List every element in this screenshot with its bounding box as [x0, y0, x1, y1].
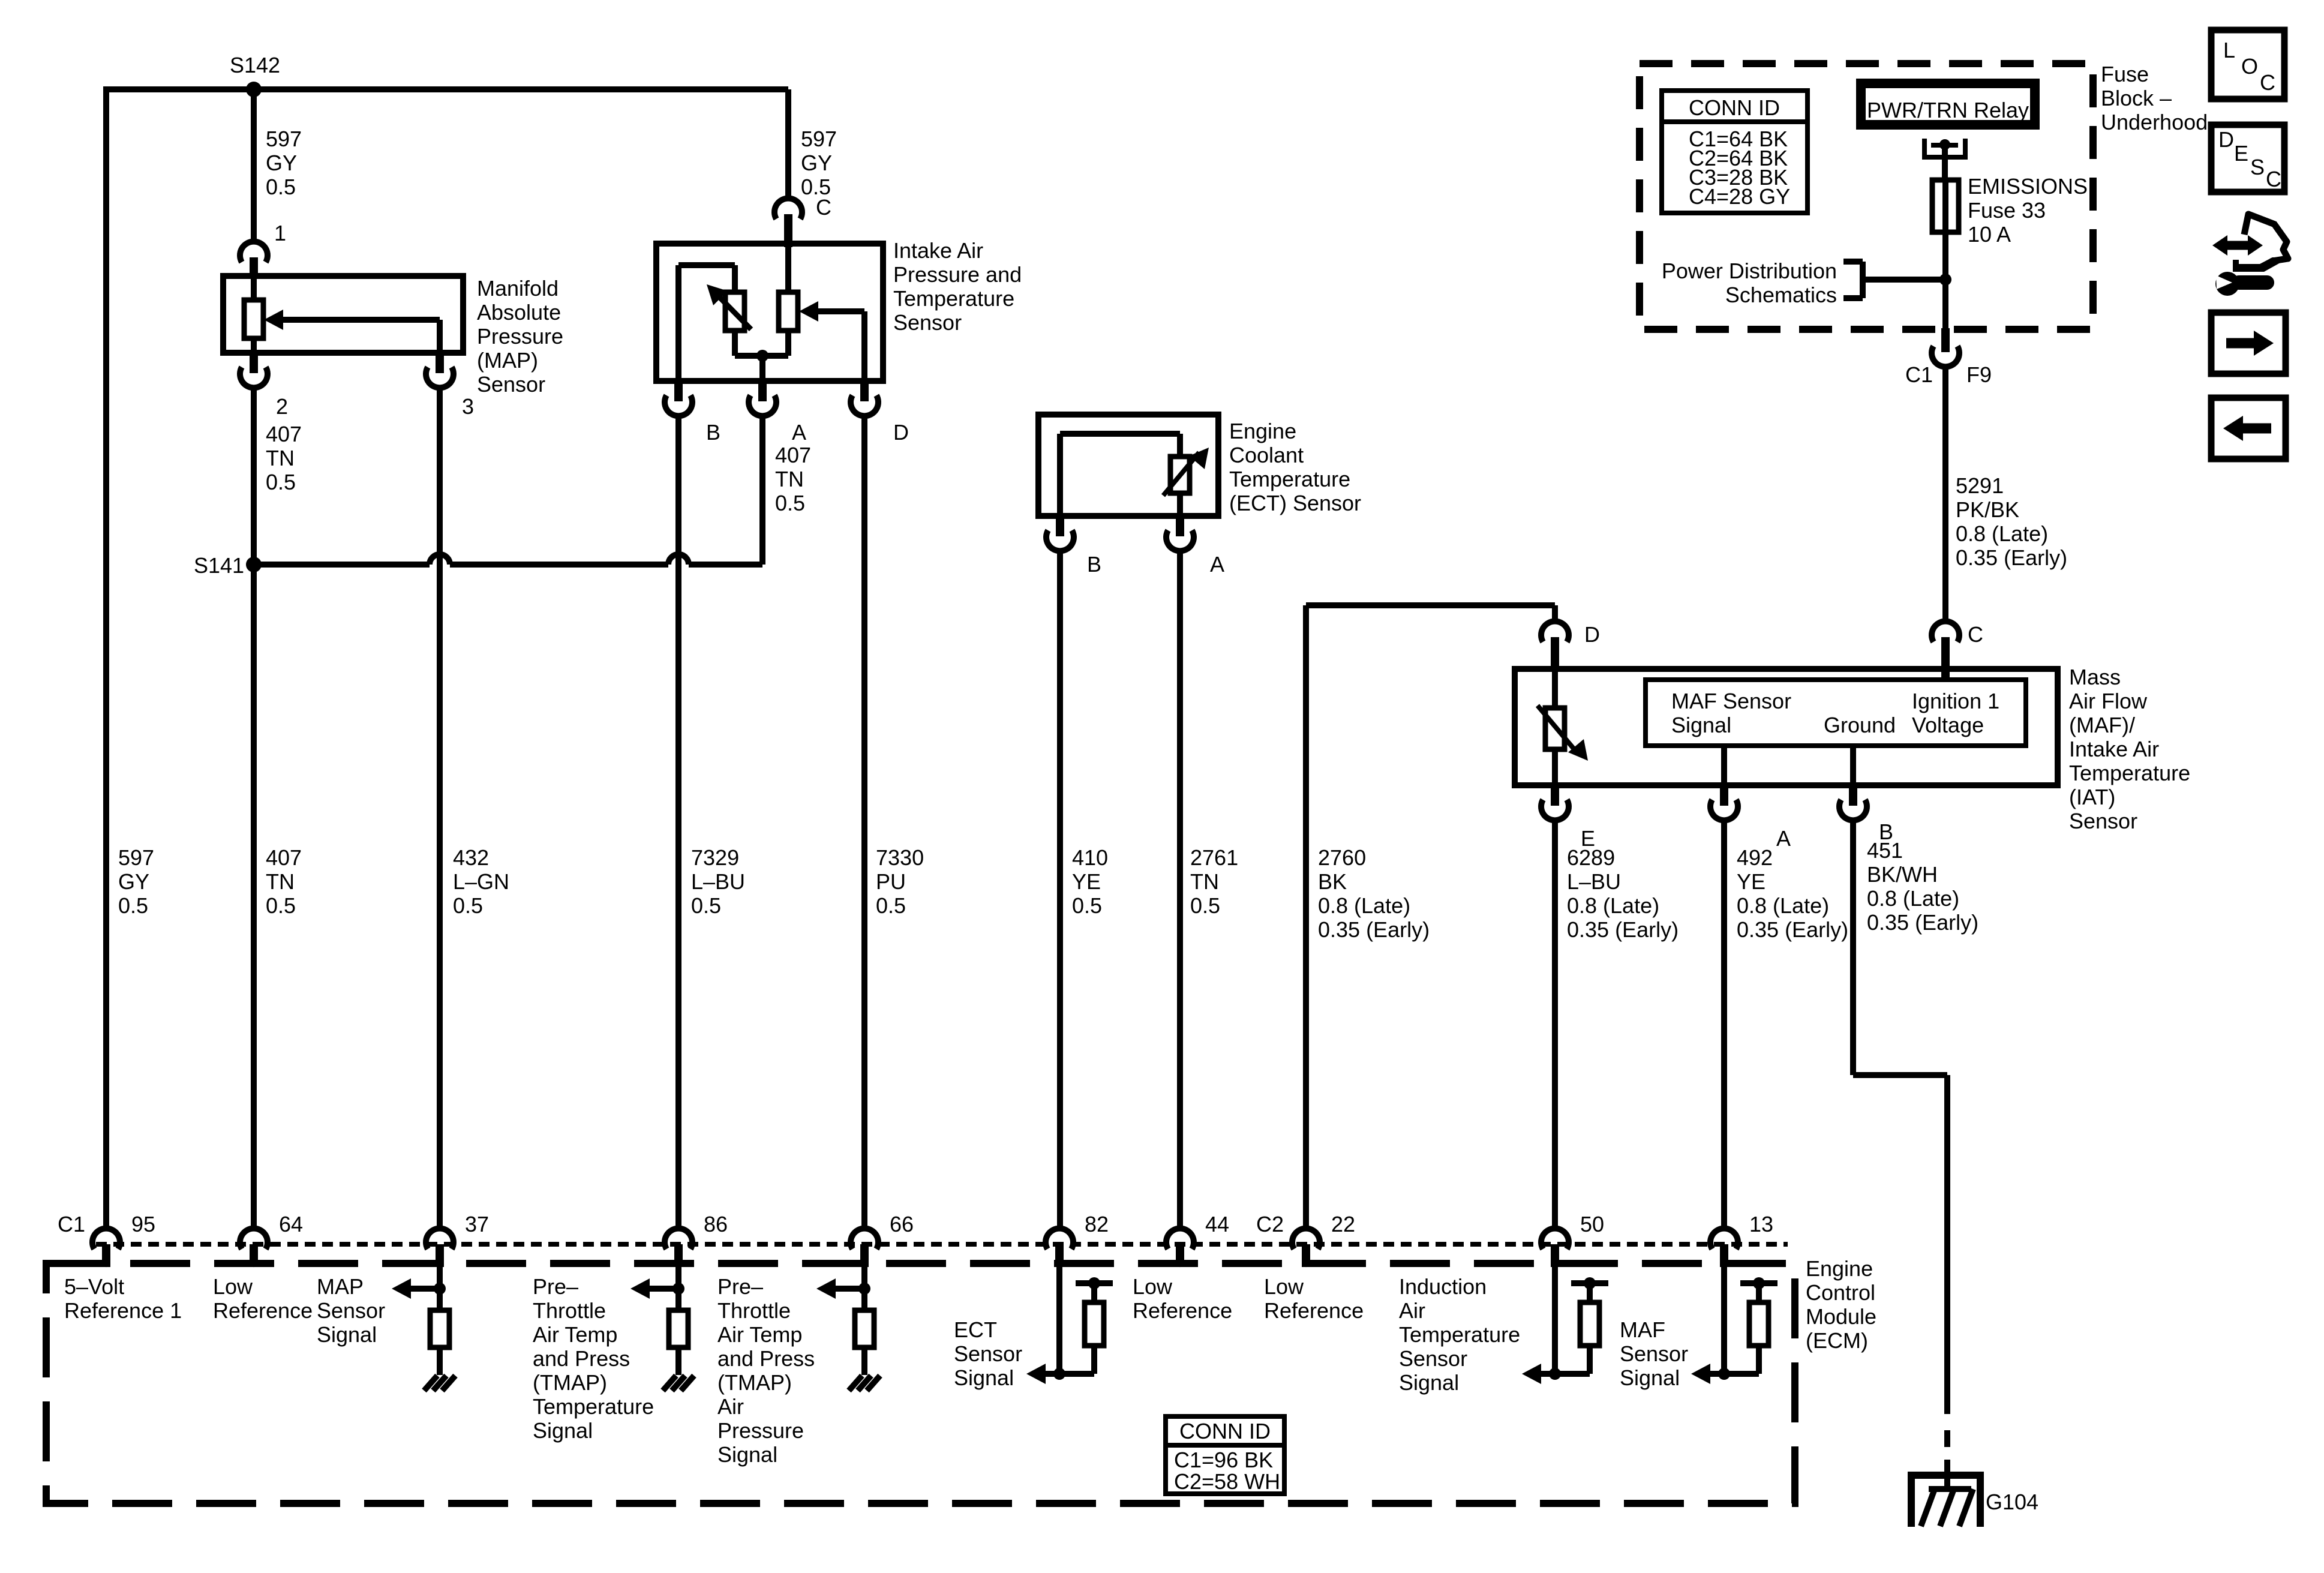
svg-text:D: D [2218, 127, 2234, 152]
svg-text:C2: C2 [1256, 1212, 1284, 1236]
svg-text:0.8 (Late): 0.8 (Late) [1867, 886, 1959, 911]
svg-text:C: C [1968, 622, 1983, 647]
connector pin D of MAF [1541, 622, 1569, 672]
svg-text:Signal: Signal [317, 1322, 377, 1347]
svg-text:G104: G104 [1986, 1490, 2038, 1514]
svg-text:Voltage: Voltage [1912, 713, 1984, 737]
svg-text:Signal: Signal [1671, 713, 1731, 737]
wire left vertical 597 GY 0.5 from top rail down to ECM pin 95 [103, 86, 109, 1230]
svg-text:Air Temp: Air Temp [533, 1322, 617, 1347]
label pin D (TMAP) [893, 420, 909, 445]
svg-text:MAP: MAP [317, 1274, 364, 1299]
svg-text:BK: BK [1318, 869, 1347, 894]
svg-text:B: B [706, 420, 720, 445]
connector pin A of TMAP [749, 380, 776, 416]
label pin A (MAF) [1776, 826, 1791, 851]
label C1 (ECM connector) [58, 1212, 85, 1236]
svg-text:Temperature: Temperature [1399, 1322, 1520, 1347]
svg-text:0.35 (Early): 0.35 (Early) [1867, 910, 1978, 935]
svg-text:GY: GY [266, 151, 297, 175]
svg-text:407: 407 [266, 422, 302, 446]
svg-text:7330: 7330 [876, 845, 924, 870]
icon box right arrow [2211, 313, 2286, 374]
svg-text:0.35 (Early): 0.35 (Early) [1956, 545, 2067, 570]
node S142 junction dot [246, 82, 262, 97]
ECT internal wire thermistor bottom to pin A [1177, 493, 1183, 516]
svg-text:C1: C1 [1905, 362, 1933, 387]
label C2 (ECM connector) [1256, 1212, 1284, 1236]
ECM dashed box [46, 1263, 1795, 1503]
power distribution schematics bracket [1843, 262, 1945, 298]
wire relay contact to fuse [1942, 145, 1948, 181]
svg-text:Underhood: Underhood [2101, 110, 2208, 134]
label pin B (MAF) [1879, 819, 1893, 844]
CONN ID table (ECM) [1166, 1416, 1284, 1494]
connector pin D of TMAP [851, 380, 878, 416]
svg-text:0.8 (Late): 0.8 (Late) [1737, 893, 1829, 918]
svg-text:95: 95 [131, 1212, 155, 1236]
svg-text:Air Temp: Air Temp [717, 1322, 802, 1347]
svg-text:Pre–: Pre– [717, 1274, 763, 1299]
svg-text:0.5: 0.5 [876, 893, 906, 918]
wire 451 BK/WH from MAF pin B to G104 ground [1853, 818, 1947, 1490]
svg-text:Reference 1: Reference 1 [64, 1298, 182, 1323]
wire 410 YE 0.5 from ECT pin B down to ECM pin 82 [1057, 548, 1063, 1230]
wire 492 YE from MAF pin A down to ECM pin 13 [1721, 818, 1727, 1230]
label Intake Air Pressure and Temperature Sensor [893, 238, 1022, 335]
svg-text:C: C [2260, 70, 2275, 95]
label pin 13 [1749, 1212, 1773, 1236]
svg-text:Sensor: Sensor [1620, 1341, 1688, 1366]
connector pin 1 of MAP sensor [240, 242, 268, 279]
svg-text:Block –: Block – [2101, 86, 2172, 110]
node fuse output junction dot [1939, 274, 1951, 286]
ECM internal wire stub at pin 95 [106, 1267, 107, 1268]
TMAP internal wire pin B up and over to thermistor [678, 265, 735, 381]
svg-text:407: 407 [775, 443, 811, 467]
label 597 GY 0.5 (wire to pin 95) [118, 845, 154, 918]
svg-text:(ECT) Sensor: (ECT) Sensor [1229, 491, 1361, 515]
connector ECM pin 37 [426, 1229, 454, 1267]
svg-text:Low: Low [213, 1274, 253, 1299]
TMAP internal wire pin C down to pressure resistor [785, 244, 791, 292]
label pin E (MAF) [1581, 826, 1595, 851]
svg-text:Ground: Ground [1824, 713, 1896, 737]
label Pre-Throttle Air Temp and Press (TMAP) Air Pressure Signal [717, 1274, 815, 1467]
wire 6289 L-BU from MAF pin E down to ECM pin 50 [1552, 818, 1558, 1230]
svg-text:(ECM): (ECM) [1806, 1328, 1868, 1353]
svg-text:S: S [2250, 155, 2265, 179]
svg-text:7329: 7329 [691, 845, 739, 870]
label pin A (TMAP) [792, 420, 806, 445]
svg-text:A: A [1776, 826, 1791, 851]
ECM internal wire stub at pin 64 [253, 1267, 254, 1268]
svg-text:Engine: Engine [1806, 1256, 1873, 1281]
svg-text:S141: S141 [194, 553, 244, 578]
svg-text:10 A: 10 A [1968, 222, 2011, 247]
thermistor inside TMAP sensor [707, 284, 751, 331]
svg-text:492: 492 [1737, 845, 1773, 870]
svg-text:(MAF)/: (MAF)/ [2069, 713, 2135, 737]
label pin D (MAF) [1584, 622, 1600, 647]
wire TMAP C drop 597 GY 0.5 [785, 89, 791, 201]
svg-text:0.35 (Early): 0.35 (Early) [1567, 917, 1679, 942]
ECM internal circuit at pin 82: signal arrow and pull-up resistor [1026, 1267, 1113, 1384]
connector ECM pin 50 [1541, 1229, 1569, 1267]
ECM internal wire stub at pin 22 [1305, 1267, 1307, 1268]
svg-text:0.5: 0.5 [266, 175, 296, 199]
svg-text:C: C [2266, 167, 2281, 191]
svg-text:0.5: 0.5 [453, 893, 483, 918]
relay contact bracket [1922, 139, 1968, 160]
svg-text:(MAP): (MAP) [477, 348, 538, 373]
label pin B (TMAP) [706, 420, 720, 445]
svg-text:C1: C1 [58, 1212, 85, 1236]
svg-text:Signal: Signal [954, 1365, 1014, 1390]
svg-text:Sensor: Sensor [954, 1341, 1022, 1366]
svg-text:Reference: Reference [213, 1298, 313, 1323]
svg-text:0.35 (Early): 0.35 (Early) [1737, 917, 1848, 942]
svg-text:Low: Low [1264, 1274, 1304, 1299]
svg-text:YE: YE [1072, 869, 1101, 894]
label 407 TN 0.5 (wire to pin 64) [266, 845, 302, 918]
icon box LOC [2211, 30, 2284, 99]
ECT internal wire pin B loop to thermistor [1060, 434, 1180, 516]
fuse EMISSIONS Fuse 33 10A [1932, 180, 1959, 232]
connector ECM pin 64 [240, 1229, 268, 1267]
label Low Reference (pin 64) [213, 1274, 313, 1323]
svg-text:0.35 (Early): 0.35 (Early) [1318, 917, 1430, 942]
svg-text:and Press: and Press [533, 1346, 630, 1371]
label Fuse Block - Underhood [2101, 62, 2208, 134]
svg-text:TN: TN [775, 467, 804, 491]
svg-text:TN: TN [1190, 869, 1219, 894]
svg-text:L–GN: L–GN [453, 869, 509, 894]
svg-text:E: E [2234, 141, 2248, 166]
ground (ECM internal at pin 37) [424, 1376, 455, 1391]
label Ignition 1 Voltage (inner box) [1912, 689, 1999, 737]
wire 7329 L-BU 0.5 from TMAP pin B down to ECM pin 86 [675, 413, 681, 1230]
svg-text:Temperature: Temperature [1229, 467, 1350, 491]
connector ECM pin 66 [851, 1229, 878, 1267]
label C1 (fuse block connector) [1905, 362, 1933, 387]
connector pin A of MAF [1710, 784, 1738, 820]
label Low Reference (pin 44) [1133, 1274, 1232, 1323]
label pin 82 [1085, 1212, 1109, 1236]
pressure resistor inside TMAP sensor [779, 292, 798, 331]
ECM internal circuit at pin 50: signal arrow and pull-up resistor [1522, 1267, 1608, 1384]
wire S141 low-reference rail with hops over 432 and 7329 wires [254, 554, 762, 565]
label pin C (MAF) [1968, 622, 1983, 647]
connector ECM pin 82 [1046, 1229, 1073, 1267]
wire 7330 PU 0.5 from TMAP pin D down to ECM pin 66 [861, 413, 867, 1230]
TMAP internal wire thermistor bottom to node [735, 331, 788, 356]
svg-text:A: A [1210, 552, 1224, 577]
svg-text:13: 13 [1749, 1212, 1773, 1236]
label pin B (ECT) [1087, 552, 1101, 577]
MAF internal wire ground to pin B [1850, 746, 1856, 785]
svg-text:Signal: Signal [717, 1442, 777, 1467]
svg-text:2760: 2760 [1318, 845, 1366, 870]
svg-text:(TMAP): (TMAP) [533, 1370, 607, 1395]
label pin 64 [279, 1212, 303, 1236]
svg-text:Pressure and: Pressure and [893, 262, 1022, 287]
svg-text:410: 410 [1072, 845, 1108, 870]
svg-text:L: L [2223, 38, 2235, 62]
svg-text:Air: Air [717, 1394, 744, 1419]
connector ECM pin 22 [1292, 1229, 1320, 1267]
label MAF Sensor Signal (inner box) [1671, 689, 1791, 737]
MAF internal wire thermistor to pin E [1552, 749, 1558, 785]
svg-text:1: 1 [274, 221, 286, 245]
svg-text:2: 2 [276, 394, 288, 419]
label 5291 PK/BK 0.8 (Late) 0.35 (Early) [1956, 473, 2067, 570]
label Mass Air Flow (MAF)/ Intake Air Temperature (IAT) Sensor [2069, 665, 2190, 833]
TMAP wiper arrow into pressure resistor [799, 301, 864, 322]
TMAP internal wire node down to pin A [759, 356, 765, 381]
wire 432 L-GN 0.5 from MAP pin 3 down to ECM pin 37 [437, 385, 443, 1230]
svg-text:Module: Module [1806, 1304, 1876, 1329]
ECM internal wire stub at pin 44 [1179, 1267, 1181, 1268]
label pin 22 [1331, 1212, 1355, 1236]
TMAP internal wire pressure resistor bottom to node [785, 331, 791, 356]
svg-text:Fuse: Fuse [2101, 62, 2149, 86]
svg-text:64: 64 [279, 1212, 303, 1236]
MAF inner terminal box [1646, 680, 2026, 746]
svg-text:Sensor: Sensor [317, 1298, 385, 1323]
svg-text:451: 451 [1867, 838, 1903, 863]
svg-text:0.5: 0.5 [118, 893, 148, 918]
wire S142 branch down to MAP sensor pin 1 [251, 89, 257, 244]
connector ECM pin 44 [1166, 1229, 1194, 1267]
svg-text:407: 407 [266, 845, 302, 870]
svg-text:CONN ID: CONN ID [1179, 1419, 1271, 1443]
svg-text:0.5: 0.5 [266, 470, 296, 494]
svg-text:TN: TN [266, 446, 295, 470]
svg-text:Reference: Reference [1264, 1298, 1364, 1323]
connector ECM pin 86 [665, 1229, 692, 1267]
connector pin 3 of MAP sensor [426, 352, 454, 388]
label MAF Sensor Signal (ECM) [1620, 1317, 1688, 1390]
label 432 L-GN 0.5 (wire to pin 37) [453, 845, 509, 918]
label 492 YE 0.8/0.35 (wire to pin 13) [1737, 845, 1848, 942]
svg-text:597: 597 [266, 127, 302, 151]
MAP internal wire pin1 to resistor top [251, 276, 257, 300]
svg-text:44: 44 [1205, 1212, 1229, 1236]
wire from S141 rail up to TMAP pin A connector [759, 413, 765, 565]
wire 2761 TN 0.5 from ECT pin A down to ECM pin 44 [1177, 548, 1183, 1230]
svg-text:Signal: Signal [1399, 1370, 1459, 1395]
MAF internal wire pin D to IAT thermistor [1552, 669, 1558, 708]
svg-text:50: 50 [1580, 1212, 1604, 1236]
label pin A (ECT) [1210, 552, 1224, 577]
svg-text:C2=58 WH: C2=58 WH [1174, 1469, 1280, 1494]
wire 2760 BK from ECM pin 22 up and over to MAF pin D [1306, 605, 1555, 1230]
label 407 TN 0.5 (MAP pin 2) [266, 422, 302, 494]
label pin 3 [462, 394, 474, 419]
svg-text:0.8 (Late): 0.8 (Late) [1318, 893, 1410, 918]
connector pin 2 of MAP sensor [240, 352, 268, 388]
svg-text:Ignition 1: Ignition 1 [1912, 689, 1999, 713]
svg-text:37: 37 [465, 1212, 489, 1236]
svg-text:Induction: Induction [1399, 1274, 1487, 1299]
CONN ID table (fuse block) [1662, 91, 1807, 213]
svg-text:S142: S142 [230, 53, 280, 77]
label Power Distribution Schematics [1662, 259, 1837, 307]
svg-text:0.5: 0.5 [1190, 893, 1220, 918]
wire 407 TN 0.5 from MAP pin 2 down to ECM pin 64 [251, 385, 257, 1230]
ECM internal circuit at pin 86: arrow, resistor, ground [630, 1267, 688, 1375]
svg-text:3: 3 [462, 394, 474, 419]
label Manifold Absolute Pressure (MAP) Sensor [477, 276, 563, 397]
svg-text:5291: 5291 [1956, 473, 2004, 498]
node S141 junction dot [246, 557, 262, 572]
svg-text:Air Flow: Air Flow [2069, 689, 2148, 713]
MAP internal wire resistor bottom to pin 2 [251, 338, 257, 354]
label EMISSIONS Fuse 33 10 A [1968, 174, 2088, 247]
ground G104 [1911, 1472, 1980, 1527]
ECT (Engine Coolant Temperature) sensor box [1038, 415, 1218, 516]
label pin 37 [465, 1212, 489, 1236]
label ECT Sensor Signal [954, 1317, 1022, 1390]
svg-text:TN: TN [266, 869, 295, 894]
label S141 [194, 553, 244, 578]
svg-text:D: D [1584, 622, 1600, 647]
TMAP (Intake Air Pressure and Temperature) sensor box [656, 244, 883, 381]
connector pin B of ECT [1046, 515, 1074, 551]
svg-text:82: 82 [1085, 1212, 1109, 1236]
svg-text:Pressure: Pressure [477, 324, 563, 349]
label 6289 L-BU 0.8/0.35 (wire to pin 50) [1567, 845, 1679, 942]
svg-text:0.5: 0.5 [1072, 893, 1102, 918]
icon wrench with double arrow [2212, 214, 2288, 296]
svg-text:0.5: 0.5 [691, 893, 721, 918]
svg-text:Control: Control [1806, 1280, 1875, 1305]
svg-text:Low: Low [1133, 1274, 1173, 1299]
MAP internal wire wiper down to pin 3 [437, 320, 443, 354]
svg-text:EMISSIONS: EMISSIONS [1968, 174, 2088, 199]
svg-text:Reference: Reference [1133, 1298, 1232, 1323]
label 451 BK/WH 0.8/0.35 (ground wire) [1867, 838, 1978, 935]
svg-text:Throttle: Throttle [533, 1298, 606, 1323]
label pin 44 [1205, 1212, 1229, 1236]
connector C1 F9 below fuse block [1932, 328, 1959, 367]
label Engine Coolant Temperature (ECT) Sensor [1229, 419, 1361, 515]
svg-text:PK/BK: PK/BK [1956, 497, 2019, 522]
label S142 [230, 53, 280, 77]
svg-text:22: 22 [1331, 1212, 1355, 1236]
svg-text:MAF Sensor: MAF Sensor [1671, 689, 1791, 713]
svg-text:BK/WH: BK/WH [1867, 862, 1938, 887]
label pin C [816, 195, 831, 220]
label F9 [1966, 362, 1992, 387]
svg-text:Fuse 33: Fuse 33 [1968, 198, 2046, 223]
MAP sensor box [223, 276, 463, 353]
label PWR/TRN Relay [1867, 98, 2029, 122]
svg-text:Sensor: Sensor [1399, 1346, 1467, 1371]
svg-text:Temperature: Temperature [893, 286, 1014, 311]
svg-text:Schematics: Schematics [1725, 283, 1837, 307]
svg-text:C1=96 BK: C1=96 BK [1174, 1448, 1273, 1472]
svg-text:0.5: 0.5 [266, 893, 296, 918]
label 410 YE 0.5 (wire to pin 82) [1072, 845, 1108, 918]
wire fuse to C1/F9 connector [1942, 232, 1948, 329]
connector ECM pin 95 [92, 1229, 120, 1267]
svg-text:(TMAP): (TMAP) [717, 1370, 792, 1395]
label Pre-Throttle Air Temp and Press (TMAP) Temperature Signal [533, 1274, 654, 1443]
label pin 1 [274, 221, 286, 245]
svg-text:C: C [816, 195, 831, 220]
svg-text:O: O [2241, 54, 2258, 79]
svg-text:ECT: ECT [954, 1317, 997, 1342]
svg-text:and Press: and Press [717, 1346, 815, 1371]
svg-text:0.8 (Late): 0.8 (Late) [1956, 521, 2048, 546]
label pin 66 [890, 1212, 914, 1236]
ECM connector face dotted line [96, 1242, 1788, 1247]
label 597 GY 0.5 (MAP branch) [266, 127, 302, 199]
svg-text:PWR/TRN Relay: PWR/TRN Relay [1867, 98, 2029, 122]
label pin 2 [276, 394, 288, 419]
label 407 TN 0.5 (TMAP pin A) [775, 443, 811, 515]
svg-text:PU: PU [876, 869, 906, 894]
svg-text:Coolant: Coolant [1229, 443, 1304, 467]
svg-text:Mass: Mass [2069, 665, 2121, 689]
svg-text:GY: GY [801, 151, 832, 175]
label 7330 PU 0.5 (wire to pin 66) [876, 845, 924, 918]
svg-text:6289: 6289 [1567, 845, 1615, 870]
MAF/IAT sensor box [1515, 669, 2058, 785]
svg-text:A: A [792, 420, 806, 445]
ECM internal circuit at pin 66: arrow, resistor, ground [816, 1267, 874, 1375]
svg-text:(IAT): (IAT) [2069, 785, 2115, 809]
label 2760 BK 0.8/0.35 (wire to pin 22) [1318, 845, 1430, 942]
svg-text:C4=28 GY: C4=28 GY [1689, 184, 1790, 209]
label pin 95 [131, 1212, 155, 1236]
svg-text:86: 86 [704, 1212, 728, 1236]
svg-text:597: 597 [118, 845, 154, 870]
connector pin E of MAF [1541, 784, 1569, 820]
connector pin C of MAF [1932, 622, 1959, 682]
label G104 [1986, 1490, 2038, 1514]
ECM internal circuit at pin 37: arrow, resistor, ground [392, 1267, 449, 1375]
connector ECM pin 13 [1710, 1229, 1738, 1267]
ground (ECM internal at pin 86) [663, 1376, 694, 1391]
label Engine Control Module (ECM) [1806, 1256, 1876, 1353]
wire 5291 PK/BK from F9 down to MAF pin C [1942, 364, 1948, 624]
svg-text:5–Volt: 5–Volt [64, 1274, 124, 1299]
svg-text:F9: F9 [1966, 362, 1992, 387]
svg-text:Pressure: Pressure [717, 1418, 804, 1443]
MAP wiper arrow to resistor [264, 310, 440, 330]
wire top rail from 5-volt reference drop to TMAP pin C drop (597 GY circuit) [106, 86, 788, 92]
label Low Reference (pin 22) [1264, 1274, 1364, 1323]
connector pin C of TMAP sensor [774, 199, 802, 247]
svg-text:Signal: Signal [533, 1418, 593, 1443]
connector pin B of TMAP [665, 380, 692, 416]
svg-text:Sensor: Sensor [893, 310, 962, 335]
ground (ECM internal at pin 66) [849, 1376, 880, 1391]
label MAP Sensor Signal [317, 1274, 385, 1347]
svg-text:Power Distribution: Power Distribution [1662, 259, 1837, 283]
svg-text:D: D [893, 420, 909, 445]
ECM internal circuit at pin 13: signal arrow and pull-up resistor [1691, 1267, 1777, 1384]
svg-text:MAF: MAF [1620, 1317, 1665, 1342]
TMAP internal node dot [756, 350, 768, 362]
label pin 86 [704, 1212, 728, 1236]
svg-text:B: B [1087, 552, 1101, 577]
svg-text:Signal: Signal [1620, 1365, 1680, 1390]
thermistor inside ECT sensor [1163, 448, 1209, 496]
